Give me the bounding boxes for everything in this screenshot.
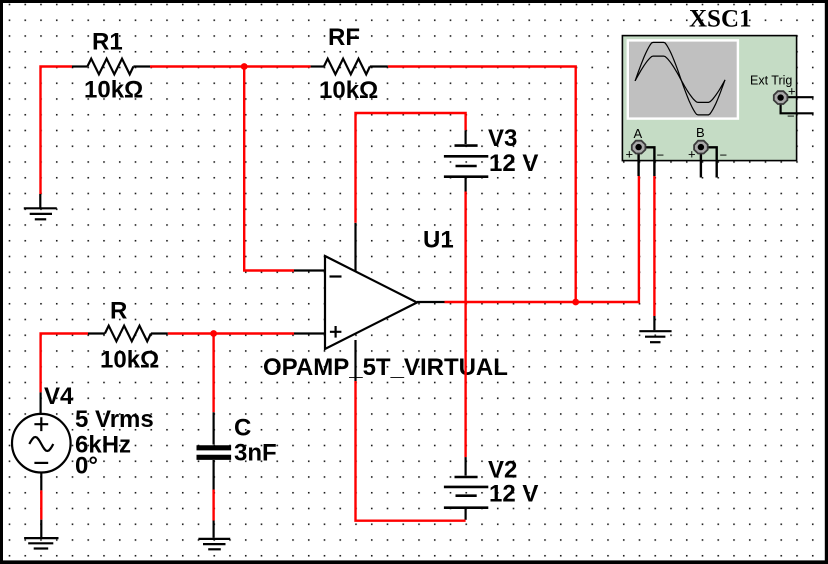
svg-text:OPAMP_5T_VIRTUAL: OPAMP_5T_VIRTUAL <box>263 354 508 381</box>
ground G3 (under C) <box>198 521 230 550</box>
scope terminal B <box>694 141 708 154</box>
svg-text:−: − <box>657 148 665 163</box>
wire op-amp V+ pin up and over to V3 plus <box>356 113 466 223</box>
wire feedback J1 to op-amp minus input <box>244 67 294 271</box>
svg-text:12 V: 12 V <box>489 150 538 177</box>
svg-text:B: B <box>696 125 705 140</box>
svg-text:5 Vrms: 5 Vrms <box>75 406 154 433</box>
svg-text:+: + <box>626 147 634 162</box>
svg-text:12 V: 12 V <box>489 481 538 508</box>
wire R to op-amp plus input through junction J3 <box>168 332 294 334</box>
wire J3 down to capacitor C <box>212 334 214 413</box>
resistor R <box>88 326 168 342</box>
op-amp U1 <box>294 223 445 381</box>
source V4 <box>12 392 71 490</box>
resistor R1 <box>72 59 150 75</box>
op-amp U1 V+ pin <box>354 223 356 272</box>
junction J3 <box>210 330 217 337</box>
svg-text:+: + <box>788 84 796 99</box>
op-amp U1 minus input pin <box>294 269 325 271</box>
battery V3 <box>444 130 488 191</box>
svg-text:10kΩ: 10kΩ <box>319 77 378 104</box>
op-amp U1 V- pin <box>354 340 356 381</box>
svg-text:RF: RF <box>328 24 360 51</box>
svg-text:10kΩ: 10kΩ <box>100 347 159 374</box>
svg-text:3nF: 3nF <box>234 440 277 467</box>
wire scope A- down to ground G4 <box>653 176 655 316</box>
wire C to ground G3 <box>212 490 214 521</box>
svg-text:−: − <box>787 109 795 124</box>
svg-text:Ext Trig: Ext Trig <box>750 74 792 88</box>
svg-text:XSC1: XSC1 <box>689 6 752 33</box>
svg-text:V3: V3 <box>488 125 517 152</box>
Ext Trig terminal <box>774 91 788 104</box>
wire op-amp output to scope A+ through junction J2 <box>445 176 639 302</box>
oscilloscope trace 1 <box>635 42 725 115</box>
wire op-amp V- pin down and over to V2 minus <box>356 381 466 521</box>
wire V3 minus down to V2 plus <box>464 192 466 458</box>
wire V4 plus up to resistor R <box>41 334 88 393</box>
svg-text:+: + <box>688 147 696 162</box>
ground G2 (under V4) <box>24 520 58 549</box>
junction J1 <box>241 63 248 70</box>
svg-text:10kΩ: 10kΩ <box>84 77 143 104</box>
oscilloscope trace 2 <box>635 56 725 102</box>
svg-text:C: C <box>234 415 251 442</box>
svg-text:0°: 0° <box>75 453 98 480</box>
svg-text:V4: V4 <box>44 383 74 410</box>
svg-text:U1: U1 <box>423 227 454 254</box>
svg-text:−: − <box>720 148 728 163</box>
capacitor C <box>197 412 232 489</box>
ground G1 (under R1) <box>24 194 57 219</box>
svg-text:V2: V2 <box>488 457 517 484</box>
scope terminal A pins <box>639 147 655 176</box>
svg-text:A: A <box>634 126 643 141</box>
resistor RF <box>311 59 388 75</box>
wire R1 to RF through junction J1 <box>150 65 311 67</box>
oscilloscope XSC1 <box>622 6 813 178</box>
oscilloscope screen <box>628 40 738 118</box>
wire V4 minus to ground G2 <box>40 490 42 519</box>
battery V2 <box>444 457 488 520</box>
svg-text:R1: R1 <box>92 29 123 56</box>
oscilloscope body <box>622 36 796 161</box>
junction J2 <box>572 299 579 306</box>
ground G4 (under scope A-) <box>639 316 671 342</box>
op-amp U1 output pin <box>417 301 445 303</box>
op-amp U1 plus input pin <box>294 332 325 334</box>
scope terminal A <box>632 141 646 154</box>
svg-text:R: R <box>110 298 127 325</box>
scope terminal B pins <box>701 147 717 177</box>
wire RF output down to output junction J2 <box>388 67 576 303</box>
Ext Trig terminal pins <box>781 97 814 113</box>
wire R1 left lead to ground G1 <box>41 67 73 195</box>
